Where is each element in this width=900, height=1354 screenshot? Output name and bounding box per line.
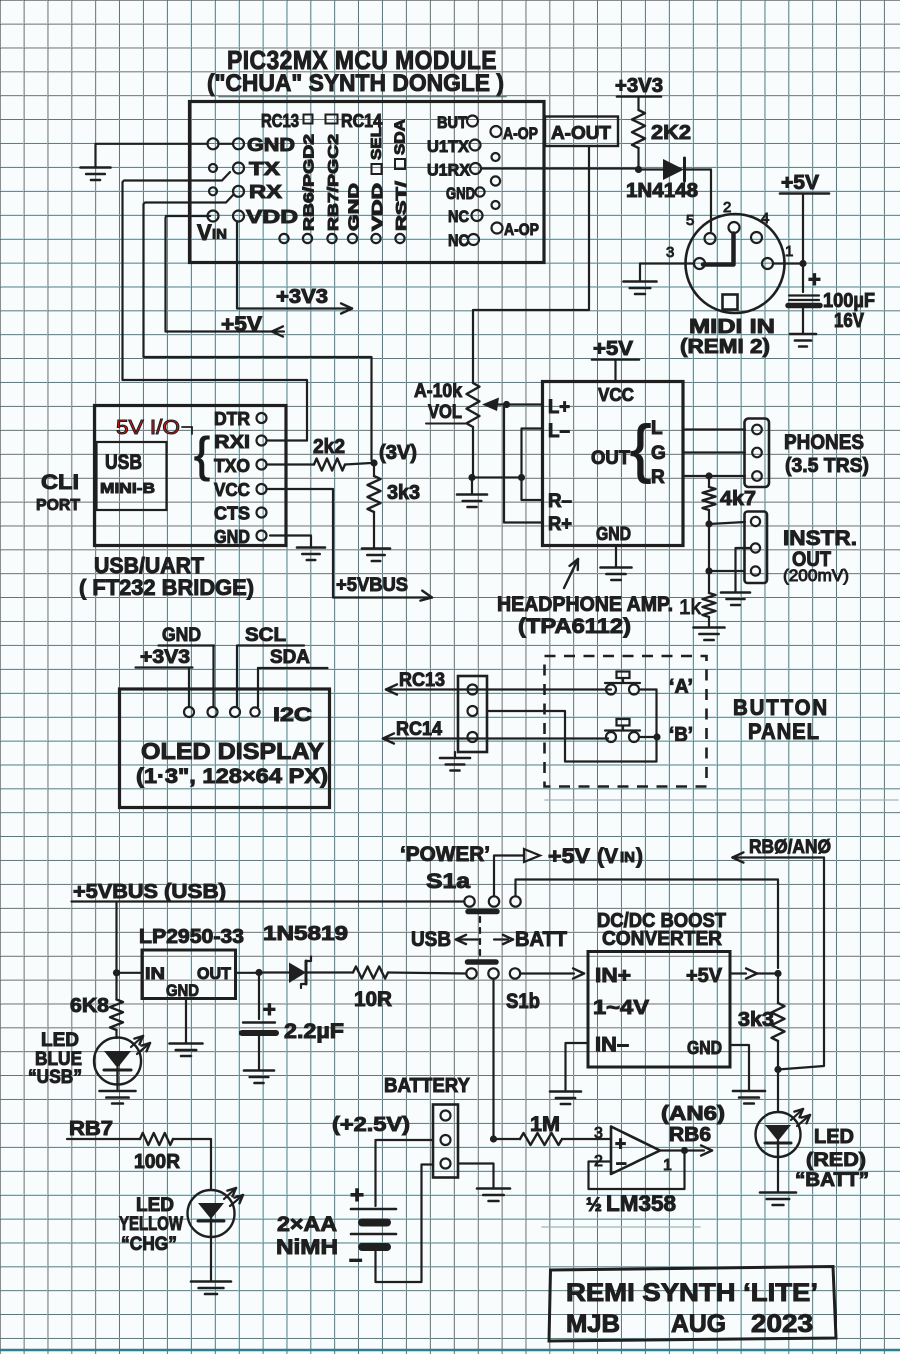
MCU right second column pins QA-OP Q O O OA-OP [491,126,502,137]
svg-text:–: – [616,1153,627,1174]
headphone amp U3 box [543,382,684,546]
resistor 1M [520,1133,562,1145]
wire RX to divider [144,195,372,460]
wire S1b right pole to boost IN+ arrow [520,972,574,974]
wire wiper to R+ [504,407,542,523]
svg-text:2K2: 2K2 [651,122,691,144]
svg-text:5: 5 [686,212,694,229]
svg-text:RX: RX [249,182,282,202]
MIDI pin 4 [751,232,762,243]
svg-text:VOL: VOL [428,402,462,423]
OLED pins [184,707,194,717]
svg-text:{: { [630,412,651,484]
svg-text:MJB: MJB [566,1310,620,1338]
svg-text:IN: IN [145,964,165,983]
wire S1a to +5V(Vin) arrow [494,856,512,897]
svg-text:4k7: 4k7 [720,488,756,510]
resistor 3k3 divider [373,463,375,476]
wire to instr jack tip [709,522,745,524]
resistor 100R [140,1133,173,1145]
svg-text:‘POWER’: ‘POWER’ [400,843,490,866]
svg-text:G: G [651,443,666,464]
wire A-OUT to volume pot [473,146,589,383]
svg-text:NC: NC [448,207,469,226]
svg-text:“BATT”: “BATT” [795,1170,869,1191]
svg-text:NC: NC [448,231,469,250]
svg-text:+: + [350,1182,364,1209]
title block box [549,1267,836,1342]
svg-text:(AN6): (AN6) [661,1103,725,1125]
svg-text:BATT: BATT [515,928,567,951]
svg-text:(+2.5V): (+2.5V) [332,1114,410,1136]
svg-text:PANEL: PANEL [748,719,820,744]
svg-text:“USB”: “USB” [28,1067,82,1088]
svg-text:L: L [651,418,663,439]
svg-text:1: 1 [663,1157,672,1174]
ground at C1 [790,333,816,336]
svg-text:LED: LED [41,1030,79,1051]
diode D1 1N4148 [642,168,663,170]
pot wiper arrow [489,403,507,405]
S1a contact bar [468,909,497,915]
junction node LP2950 IN [113,969,120,976]
svg-text:100µF: 100µF [823,290,875,312]
USB mini-B inner box [97,442,167,510]
ground at pot [471,478,473,495]
svg-text:RB6/PGD2: RB6/PGD2 [301,134,318,231]
svg-text:IN–: IN– [595,1034,629,1056]
junction node wiper [503,401,510,408]
svg-text:LP2950-33: LP2950-33 [139,926,244,948]
svg-text:): ) [636,845,643,868]
svg-text:2×AA: 2×AA [277,1213,337,1236]
power +3V3 rail at 2k2 [617,95,661,98]
svg-text:5V I/O: 5V I/O [116,417,180,439]
wire RXI stub [267,439,307,441]
wire +3V3 to OLED pin1 [188,668,190,708]
svg-text:1k: 1k [679,596,701,619]
S1a-S1b dashed link [479,917,481,958]
wire header mid to buttons common [487,690,657,762]
node label A-OUT with box [545,117,618,147]
svg-text:1M: 1M [530,1113,560,1136]
svg-text:+5VBUS: +5VBUS [336,575,408,596]
button header J4 [458,676,487,752]
svg-text:(RED): (RED) [806,1150,866,1171]
capacitor C1 100uF [802,264,804,293]
phones jack J2 [745,419,770,488]
vertical pin label SDA with square [395,159,405,169]
potentiometer A-10k VOL [467,383,480,427]
wire MIDI pin1 to +5V node [773,262,803,264]
MIDI notch square [723,295,738,310]
svg-text:S1b: S1b [506,990,540,1013]
wire header bottom pin to ground [458,1164,494,1189]
svg-text:A-OUT: A-OUT [551,123,611,143]
resistor 6K8 [115,973,117,1000]
svg-text:RB6: RB6 [669,1124,711,1146]
svg-text:GND: GND [214,527,250,547]
svg-text:BUT: BUT [437,113,468,132]
ground at boost GND [733,1090,765,1093]
svg-text:IN: IN [620,849,635,866]
USB/UART U2 box [95,406,287,546]
svg-text:I2C: I2C [273,705,312,726]
svg-text:+: + [808,267,821,292]
wire VDD to +5V arrow [166,216,285,332]
svg-text:U1TX: U1TX [427,137,470,156]
svg-text:R: R [651,467,665,488]
svg-text:RC13: RC13 [399,670,445,691]
resistor 3k3 at boost [777,974,779,1004]
svg-text:GND: GND [687,1038,722,1058]
instr jack J3 [745,512,768,584]
svg-text:L–: L– [548,421,570,442]
svg-text:3: 3 [666,244,674,261]
svg-text:TX: TX [249,159,280,179]
svg-text:½: ½ [586,1195,602,1216]
regulator LP2950 box [142,950,236,999]
wire amp GND to ground [615,546,617,568]
svg-text:LED: LED [136,1195,174,1216]
svg-text:SEL: SEL [368,127,385,160]
opamp feedback wire [589,1153,685,1189]
wire GND pin to ground [270,536,311,548]
svg-text:INSTR.: INSTR. [783,527,857,550]
svg-text:1N4148: 1N4148 [626,180,698,202]
op-amp U5 LM358 [611,1127,660,1175]
wire diode to MIDI pin 5 [710,170,712,232]
svg-text:CLI: CLI [41,471,79,494]
junction node at 2k2/diode [635,166,642,173]
svg-text:VCC: VCC [214,480,250,500]
svg-text:("CHUA" SYNTH DONGLE ): ("CHUA" SYNTH DONGLE ) [207,70,504,97]
svg-text:GND: GND [247,135,295,155]
svg-text:GND: GND [446,184,475,203]
svg-text:3: 3 [594,1125,603,1142]
wire node to 1M [494,1138,521,1140]
svg-text:(3.5 TRS): (3.5 TRS) [785,455,869,477]
svg-text:(1·3", 128×64 PX): (1·3", 128×64 PX) [136,765,328,788]
wire opamp output [660,1149,685,1151]
ground at FT232 GND [297,546,325,549]
svg-text:SCL: SCL [245,625,286,646]
annotation arrow to amp [564,559,578,588]
svg-text:2k2: 2k2 [313,436,345,458]
wire MIDI pin3 to ground [640,262,694,264]
scanner bottom edge line [0,1349,900,1351]
svg-text:GND: GND [162,625,201,646]
svg-text:R–: R– [548,491,572,512]
ground at MCU GND [81,166,111,169]
svg-text:(TPA6112): (TPA6112) [518,615,631,638]
svg-text:S1a: S1a [426,870,470,893]
svg-text:CONVERTER: CONVERTER [602,928,723,950]
svg-text:3k3: 3k3 [387,482,420,504]
svg-text:+: + [263,997,276,1022]
svg-text:RC13: RC13 [261,111,299,131]
wire battery - to header bottom [376,1165,434,1283]
battery header J5 [433,1105,458,1178]
wire Vin pin to +3V3 arrow [237,222,351,309]
wire RB7 to 100R [67,1138,140,1140]
svg-text:+5V: +5V [221,313,262,336]
pencil line artifact [545,799,898,801]
svg-text:RC14: RC14 [396,719,442,740]
svg-text:IN+: IN+ [595,965,631,987]
LED D3 blue [94,1038,141,1085]
wire SDA to OLED pin4 [257,668,259,707]
svg-text:CTS: CTS [214,504,250,524]
svg-text:OLED DISPLAY: OLED DISPLAY [141,738,324,764]
svg-text:L+: L+ [548,397,570,418]
MCU bottom pin circles row [279,234,288,243]
ground at C2 [244,1069,274,1072]
ground at IN- [550,1090,581,1093]
switch S1a poles [464,896,474,906]
svg-text:{: { [194,429,210,482]
OLED display box [120,689,330,808]
svg-text:“CHG”: “CHG” [121,1234,177,1255]
wire +5VBUS rail to S1a [72,900,465,902]
svg-text:2: 2 [723,199,731,216]
svg-text:+5V: +5V [686,965,723,987]
wire 1M to opamp + [562,1138,611,1140]
svg-text:DTR: DTR [214,409,250,429]
svg-text:+3V3: +3V3 [276,286,328,308]
svg-text:LM358: LM358 [606,1191,676,1216]
svg-text:SDA: SDA [270,647,310,668]
junction node MIDI +5V [799,260,806,267]
svg-text:OUT: OUT [197,964,232,983]
svg-text:(3V): (3V) [379,442,417,464]
wire SCL to OLED pin3 [236,646,238,708]
ground at 1k [694,626,725,629]
svg-text:LED: LED [814,1126,854,1148]
wire TX to FT232 RXI [123,172,308,441]
wire LP2950 GND to ground [185,999,187,1044]
MIDI DIN connector J1 circle [686,214,785,313]
wire S1a right pole to boost +5V net [516,880,779,969]
MIDI pin 2 [729,222,740,233]
wire RB0 down to LED node [778,858,824,1070]
pencil line artifact 2 [542,1226,700,1228]
svg-text:A-10k: A-10k [414,381,462,402]
junction node 1k top [705,567,712,574]
junction node 3V divider [370,459,377,466]
svg-text:V: V [197,220,212,245]
resistor 2k2 pull-up [637,148,639,170]
svg-text:YELLOW: YELLOW [119,1214,183,1235]
svg-text:A-OP: A-OP [503,124,538,143]
wire boost IN- to ground [566,1043,589,1091]
junction node R to 4k7 [705,472,712,479]
pencil underline below title [219,96,506,98]
svg-text:AUG: AUG [671,1310,726,1338]
svg-text:(200mV): (200mV) [783,566,849,585]
svg-text:BATTERY: BATTERY [384,1075,471,1097]
ground at red LED [777,1157,779,1192]
MIDI key bracket [703,234,734,265]
svg-text:+3V3: +3V3 [615,75,663,97]
svg-text:R+: R+ [548,514,572,535]
wire U1RX to diode junction [481,167,637,169]
svg-text:16V: 16V [834,310,865,332]
svg-text:PHONES: PHONES [784,431,864,454]
MIDI pin 1 [762,258,773,269]
push button B [606,732,616,742]
ground at button header [454,752,456,758]
svg-text:USB: USB [411,928,451,951]
junction node pot bottom [468,474,475,481]
svg-text:REMI SYNTH ‘LITE’: REMI SYNTH ‘LITE’ [566,1279,818,1307]
junction node at B [653,733,660,740]
svg-text:VCC: VCC [598,385,634,405]
svg-text:+5VBUS: +5VBUS [73,881,158,903]
svg-text:GND: GND [596,524,631,544]
svg-text:+3V3: +3V3 [140,647,190,668]
svg-text:2023: 2023 [751,1310,813,1338]
svg-text:TXO: TXO [214,456,250,476]
svg-text:1N5819: 1N5819 [263,923,348,945]
svg-text:‘A’: ‘A’ [669,676,693,698]
resistor 10R [353,967,388,979]
junction node 2.2uF [255,969,262,976]
resistor 2k2 series [314,459,345,471]
capacitor C2 2.2uF [258,973,260,1020]
svg-text:GND: GND [346,183,363,231]
wire wiper to L+ [507,403,543,405]
svg-text:‘B’: ‘B’ [669,724,693,746]
junction node LED batt [774,1066,781,1073]
wire +5VBUS down to LP2950 IN [115,902,117,971]
svg-text:+5V: +5V [781,172,820,194]
ground at MIDI pin3 [624,280,657,283]
wire instr sleeve to 1k node [709,570,744,572]
svg-text:6K8: 6K8 [70,995,109,1017]
wire GND pin to ground [96,143,208,145]
svg-text:( FT232 BRIDGE): ( FT232 BRIDGE) [79,575,254,600]
svg-text:4: 4 [761,210,769,227]
svg-text:OUT: OUT [591,448,630,469]
svg-text:RST/: RST/ [393,180,410,231]
wire button A to common [639,688,657,690]
wire battery + to header [376,1140,434,1206]
svg-text:RXI: RXI [214,432,250,452]
svg-text:U1RX: U1RX [427,161,471,180]
svg-text:VDD: VDD [246,207,298,227]
svg-text:RBØ/ANØ: RBØ/ANØ [749,837,831,858]
svg-text:(REMI 2): (REMI 2) [680,336,770,358]
junction node boost out [774,970,781,977]
svg-text:100R: 100R [134,1151,181,1173]
svg-text:MINI-B: MINI-B [100,480,155,497]
junction node battery sense [490,1135,497,1142]
resistor 4k7 [708,476,710,487]
svg-text:10R: 10R [354,988,392,1011]
wire pot node to L- node [472,476,522,478]
wire 100R to LED yellow [173,1139,211,1190]
MIDI pin 5 [705,233,716,244]
switch S1b poles [466,968,476,978]
resistor 1k [708,571,710,593]
wire S1b mid pole to battery [492,979,494,1137]
svg-text:SDA: SDA [392,119,409,155]
svg-text:RB7: RB7 [69,1118,113,1140]
diode D2 1N5819 [263,971,290,973]
LED D4 red [777,1070,779,1113]
ground at yellow LED [210,1237,212,1281]
boost converter U4 box [588,952,730,1068]
ground at battery header [477,1187,510,1190]
junction node output [681,1147,688,1154]
wire boost GND to ground [730,1045,749,1091]
button panel dashed box [545,656,707,787]
wire 4k7 node to 1k node [708,524,710,571]
svg-text:IN: IN [212,226,227,243]
svg-text:1~4V: 1~4V [593,997,650,1019]
wire LP2950 OUT to cap node [236,972,257,974]
ground at amp [601,566,632,569]
svg-text:HEADPHONE AMP.: HEADPHONE AMP. [497,593,673,616]
wire boost +5V out with arrow [730,972,746,974]
svg-text:–: – [349,1246,362,1273]
wire OUT G to phones [683,451,745,453]
svg-text:BUTTON: BUTTON [733,695,829,720]
wire button B to common node [639,736,657,738]
ground at instr jack [721,591,750,594]
svg-text:+5V: +5V [593,338,634,360]
svg-text:(USB): (USB) [164,881,226,903]
vertical pin label SEL with square [372,164,382,174]
ground at 3k3 [362,547,390,550]
svg-text:(V: (V [597,845,618,868]
MCU left pins GND TX RX VDD [208,138,219,149]
wire GND to OLED pin2 [212,646,214,708]
svg-text:NiMH: NiMH [276,1236,338,1259]
svg-text:MIDI IN: MIDI IN [689,316,775,338]
junction node L- R- [518,474,525,481]
svg-text:USB: USB [105,451,142,474]
junction node 4k7 bottom [705,520,712,527]
wire L- loop [522,429,543,501]
LED D5 yellow [188,1190,235,1237]
wire TXO to 2k2 [267,463,314,465]
MCU module U1 box [190,102,545,263]
svg-text:2.2µF: 2.2µF [284,1020,344,1043]
wire 10R to S1b [388,973,466,974]
svg-text:3k3: 3k3 [738,1009,774,1031]
wire VCC to +5VBUS arrow [267,489,428,598]
MIDI pin 3 [694,258,705,269]
ground at LP2950 [170,1042,203,1045]
wire OUT L to phones [683,428,745,430]
wire pot bottom to ground node [472,427,474,478]
wire instr middle pin to ground [736,548,752,592]
svg-text:PORT: PORT [36,497,80,514]
ground at blue LED [116,1085,118,1092]
svg-text:1: 1 [785,243,793,260]
wire node to LP2950 IN [117,972,143,974]
S1b contact bar [468,959,497,965]
svg-text:RB7/PGC2: RB7/PGC2 [325,134,342,231]
svg-text:A-OP: A-OP [504,220,539,239]
svg-text:GND: GND [166,981,199,1000]
svg-text:+5V: +5V [548,845,590,868]
wire OUT R to phones [683,475,745,477]
svg-text:VDD: VDD [369,183,386,231]
svg-text:+: + [615,1134,626,1155]
